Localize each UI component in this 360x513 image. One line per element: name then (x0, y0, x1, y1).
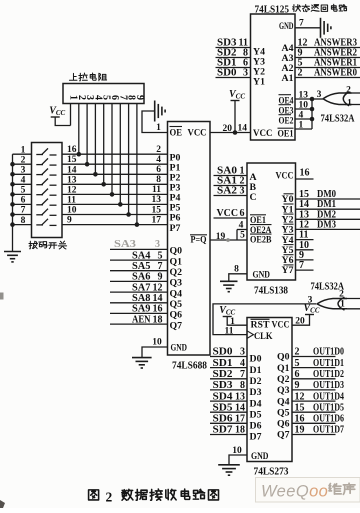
svg-text:Q2: Q2 (170, 267, 183, 278)
OR gate G1 74LS32A (facing left, output pin 3) (312, 86, 360, 109)
svg-text:13: 13 (67, 175, 77, 185)
svg-text:SA3: SA3 (114, 239, 136, 250)
wire resistor pin 5 to switch output row 13 (101, 104, 106, 187)
svg-text:GND: GND (279, 22, 294, 32)
svg-text:OE: OE (170, 128, 183, 139)
svg-text:3: 3 (240, 347, 245, 358)
svg-text:3: 3 (240, 186, 245, 197)
svg-text:GND: GND (171, 343, 188, 354)
svg-text:C: C (250, 192, 257, 203)
svg-text:OUT1D1: OUT1D1 (313, 358, 344, 369)
svg-text:SD6: SD6 (213, 414, 233, 425)
svg-text:AEN: AEN (132, 314, 151, 325)
wire gate G2 output to 74LS273 CLK pin 11 (213, 304, 317, 336)
svg-text:12: 12 (153, 282, 163, 293)
74LS138 Y7 stub (pin 7) (296, 260, 314, 271)
net SD6 into 74LS273 D6 (pin 17) (210, 414, 247, 425)
net SA2 into 74LS138 C (pin 3) (214, 186, 248, 197)
net SD0 into 74LS125 Y1 (pin 3) (216, 68, 251, 79)
svg-text:Q1: Q1 (277, 363, 290, 374)
svg-text:3: 3 (243, 68, 248, 79)
svg-text:SD5: SD5 (213, 402, 233, 413)
label 74LS32A (lower) (311, 282, 345, 293)
svg-text:OUT1D7: OUT1D7 (313, 425, 344, 436)
svg-text:OUT1D5: OUT1D5 (313, 402, 344, 413)
net SA8 to 74LS688 Q5 (pin 14) (110, 293, 168, 304)
watermark WeeQoo维库 (256, 478, 360, 503)
svg-text:6: 6 (240, 208, 245, 219)
net OUT1D1 from 74LS273 Q1 (pin 5) (292, 358, 344, 369)
svg-text:5: 5 (158, 250, 163, 261)
net SD1 into 74LS125 Y2 (pin 6) (216, 58, 251, 69)
svg-text:14: 14 (238, 124, 248, 134)
net OUT1D7 from 74LS273 Q7 (pin 19) (292, 425, 344, 436)
svg-text:3: 3 (21, 166, 26, 176)
svg-text:D2: D2 (250, 376, 262, 387)
svg-text:Y7: Y7 (282, 265, 294, 276)
svg-text:11: 11 (225, 326, 234, 336)
net SD2 into 74LS273 D2 (pin 7) (210, 369, 247, 380)
svg-text:17: 17 (235, 414, 245, 425)
svg-text:OE2: OE2 (279, 117, 294, 127)
net SD4 into 74LS273 D4 (pin 13) (210, 391, 247, 402)
svg-text:OUT1D6: OUT1D6 (313, 414, 344, 425)
label 74LS32A (upper) (321, 114, 356, 125)
svg-text:VCC: VCC (253, 128, 273, 139)
P=Q pin19 wire to 74LS138 OE2A/OE2B (210, 221, 247, 243)
svg-text:Q0: Q0 (170, 246, 183, 257)
net SA7 to 74LS688 Q4 (pin 12) (110, 282, 168, 293)
svg-text:SD2: SD2 (213, 369, 233, 380)
svg-text:11: 11 (152, 185, 161, 195)
svg-text:12: 12 (67, 185, 77, 195)
svg-text:14: 14 (67, 165, 77, 175)
svg-text:Q1: Q1 (170, 256, 183, 267)
svg-text:VCC: VCC (217, 208, 239, 219)
svg-text:DM3: DM3 (317, 219, 336, 230)
svg-text:8: 8 (21, 216, 26, 226)
svg-text:SA5: SA5 (132, 261, 151, 272)
svg-text:WeeQoo: WeeQoo (261, 483, 328, 501)
svg-text:10: 10 (299, 101, 309, 111)
svg-text:SD0: SD0 (217, 68, 237, 79)
svg-text:2: 2 (21, 155, 26, 165)
svg-text:4: 4 (156, 155, 161, 165)
svg-text:10: 10 (232, 446, 242, 456)
svg-text:15: 15 (295, 402, 305, 413)
svg-text:Q4: Q4 (170, 288, 183, 299)
svg-text:2: 2 (346, 86, 351, 96)
net SD3 into 74LS125 Y4 (pin 11) (216, 38, 251, 49)
svg-text:Q5: Q5 (277, 407, 290, 418)
svg-text:7: 7 (240, 369, 245, 380)
svg-text:74LS32A: 74LS32A (321, 114, 356, 125)
net row: switch pin 14 to 74LS688 P2 (pin 6) (62, 165, 168, 175)
svg-text:5: 5 (240, 230, 245, 240)
net AEN to 74LS688 Q7 (pin 18) (110, 314, 168, 325)
svg-text:9: 9 (158, 272, 163, 283)
DIP switch S1 (拨码开关, 8 switches) (32, 143, 63, 238)
svg-text:Q7: Q7 (277, 430, 290, 441)
74LS688 GND pin10 to ground (132, 338, 168, 369)
label 74LS138 (254, 286, 288, 297)
svg-text:D4: D4 (250, 398, 262, 409)
svg-text:OUT1D3: OUT1D3 (313, 380, 344, 391)
scan artifact bottom-left corner (0, 293, 5, 509)
svg-text:1: 1 (230, 317, 235, 327)
svg-text:16: 16 (153, 304, 163, 315)
net SD2 into 74LS125 Y3 (pin 8) (216, 48, 251, 59)
svg-text:7: 7 (299, 18, 304, 28)
svg-text:Q6: Q6 (277, 419, 290, 430)
IC U2 74LS125 (quad buffer) (251, 14, 296, 140)
svg-text:SA7: SA7 (132, 282, 151, 293)
caption 图2 数据接收电路图 (Figure 2: data receiving circuit) (89, 489, 219, 504)
svg-text:10: 10 (67, 206, 77, 216)
net DM3 from 74LS138 Y3 (pin 12) (296, 219, 360, 230)
wire resistor pin 7 to switch output row 11 (118, 104, 123, 207)
Vcc supply to 74LS273 VCC pin 20 (292, 303, 320, 327)
svg-text:6: 6 (21, 196, 26, 206)
svg-text:OUT1D2: OUT1D2 (313, 369, 344, 380)
net VCC into 74LS138 OE1 (pin 6) (214, 208, 248, 219)
svg-text:8: 8 (240, 380, 245, 391)
svg-text:5: 5 (295, 358, 300, 369)
svg-text:5: 5 (21, 186, 26, 196)
74LS138 Y6 stub (pin 9) (296, 250, 314, 261)
net ANSWER2 from 74LS125 A3 (pin 9) (295, 48, 360, 59)
OR gate G2 74LS32A (facing left, output to CLK) (308, 290, 360, 311)
IC U3 74LS138 (3-to-8 decoder) (247, 163, 296, 281)
label 拨码开关 (DIP switch) (29, 241, 67, 249)
net row: switch pin 16 to 74LS688 P0 (pin 2) (62, 145, 168, 155)
net SD7 into 74LS273 D7 (pin 18) (210, 425, 247, 436)
net DM0 from 74LS138 Y0 (pin 15) (296, 189, 360, 200)
74LS125 OE1-OE4 pins bus to gate G1 (295, 91, 314, 131)
net SD0 into 74LS273 D0 (pin 3) (210, 347, 247, 358)
wire resistor pin 6 to switch output row 12 (110, 104, 115, 197)
svg-text:RST: RST (251, 321, 271, 331)
svg-text:SD0: SD0 (213, 347, 233, 358)
Vcc supply at 74LS688/74LS125 VCC (229, 89, 245, 133)
svg-text:13: 13 (299, 91, 309, 101)
svg-text:SA9: SA9 (132, 304, 151, 315)
label 上拉电阻 (pull-up resistor) (69, 73, 106, 81)
svg-text:3: 3 (155, 239, 160, 250)
svg-text:Q3: Q3 (170, 278, 183, 289)
svg-text:8: 8 (234, 265, 239, 275)
svg-text:SD4: SD4 (213, 391, 234, 402)
Vcc supply to 74LS273 RST pin 1 (219, 305, 247, 327)
svg-text:4: 4 (21, 176, 26, 186)
net ANSWER3 from 74LS125 A4 (pin 12) (295, 38, 360, 49)
svg-text:12: 12 (295, 391, 305, 402)
svg-text:1: 1 (156, 123, 161, 133)
net OUT1D3 from 74LS273 Q3 (pin 9) (292, 380, 344, 391)
svg-text:OE2B: OE2B (250, 235, 272, 245)
switch input pins 1-8 with common bus (10, 145, 31, 251)
svg-text:1: 1 (347, 99, 352, 109)
svg-text:2: 2 (298, 68, 303, 79)
svg-text:6: 6 (156, 165, 161, 175)
svg-text:7: 7 (21, 206, 26, 216)
svg-text:4: 4 (239, 221, 244, 231)
svg-text:Q2: Q2 (277, 374, 290, 385)
IC U1 74LS688 (8-bit comparator) (168, 122, 211, 356)
net ANSWER1 from 74LS125 A2 (pin 5) (295, 58, 360, 69)
svg-text:18: 18 (153, 314, 163, 325)
svg-text:3: 3 (317, 90, 322, 100)
svg-text:VCC: VCC (276, 171, 294, 182)
svg-text:15: 15 (67, 155, 77, 165)
svg-text:SD1: SD1 (213, 358, 233, 369)
net OUT1D0 from 74LS273 Q0 (pin 2) (292, 347, 344, 358)
svg-text:1: 1 (340, 300, 345, 310)
74LS138 VCC pin16 stub (296, 168, 314, 180)
svg-text:9: 9 (134, 95, 145, 100)
svg-text:VCC: VCC (272, 320, 290, 331)
svg-text:7: 7 (158, 261, 163, 272)
net SD3 into 74LS273 D3 (pin 8) (210, 380, 247, 391)
74LS138 Y5 stub (pin 10) (296, 240, 314, 251)
resistor network RN1 (pull-up resistor pack, pins 1-9) (63, 84, 145, 104)
label 状态返回电路 (status return circuit) (293, 4, 347, 11)
svg-text:OUT1D0: OUT1D0 (313, 347, 344, 358)
wire resistor pin 8 to switch output row 10 (126, 104, 131, 217)
svg-text:13: 13 (152, 195, 162, 205)
svg-text:4: 4 (240, 358, 245, 369)
svg-text:9: 9 (67, 216, 72, 226)
net SD1 into 74LS273 D1 (pin 4) (210, 358, 247, 369)
svg-text:7: 7 (299, 260, 304, 271)
svg-text:SD7: SD7 (213, 425, 233, 436)
svg-text:74LS138: 74LS138 (254, 286, 288, 297)
svg-text:19: 19 (216, 232, 226, 242)
svg-text:15: 15 (152, 205, 162, 215)
net OUT1D2 from 74LS273 Q2 (pin 6) (292, 369, 344, 380)
net row: switch pin 11 to 74LS688 P5 (pin 13) (62, 195, 168, 205)
svg-text:8: 8 (156, 175, 161, 185)
svg-text:Q3: Q3 (277, 385, 290, 396)
svg-text:14: 14 (235, 402, 245, 413)
net row: switch pin 9 to 74LS688 P7 (pin 17) (62, 215, 168, 225)
svg-text:2: 2 (295, 347, 300, 358)
net row: switch pin 10 to 74LS688 P6 (pin 15) (62, 205, 168, 215)
IC U4 74LS273 (octal D flip-flop) (247, 318, 292, 463)
net OUT1D5 from 74LS273 Q5 (pin 15) (292, 402, 344, 413)
svg-text:OUT1D4: OUT1D4 (313, 391, 345, 402)
svg-text:19: 19 (295, 425, 305, 436)
svg-text:SD3: SD3 (213, 380, 233, 391)
svg-text:13: 13 (235, 391, 245, 402)
label 74LS273 (254, 467, 289, 478)
label 74LS125 (255, 5, 290, 16)
svg-text:10: 10 (152, 338, 162, 348)
svg-text:SA6: SA6 (132, 272, 151, 283)
svg-text:Q6: Q6 (170, 310, 183, 321)
svg-text:4: 4 (299, 111, 304, 121)
svg-text:ANSWER0: ANSWER0 (314, 68, 357, 79)
svg-text:D3: D3 (250, 387, 262, 398)
svg-text:20: 20 (223, 124, 233, 134)
wire resistor pin 9 to switch output row 9 (135, 104, 140, 227)
wire resistor pin 1 stub (70, 104, 72, 126)
74LS688 pin1 OE wire to ground (rotated) (142, 101, 168, 134)
ground for switch common bus (4, 252, 21, 262)
net ANSWER0 from 74LS125 A1 (pin 2) (295, 68, 360, 79)
svg-text:74LS32A: 74LS32A (311, 282, 345, 293)
74LS273 GND pin10 to ground (218, 446, 247, 475)
net SA6 to 74LS688 Q3 (pin 9) (110, 272, 168, 283)
svg-text:17: 17 (152, 215, 162, 225)
svg-text:9: 9 (295, 380, 300, 391)
svg-text:OE1: OE1 (278, 130, 294, 140)
svg-text:D7: D7 (250, 432, 262, 443)
svg-text:D5: D5 (250, 409, 262, 420)
svg-text:VCC: VCC (188, 127, 207, 138)
svg-text:74LS688: 74LS688 (172, 361, 207, 372)
svg-text:D6: D6 (250, 421, 262, 432)
74LS138 Y4 stub (pin 11) (296, 230, 314, 241)
net DM2 from 74LS138 Y2 (pin 13) (296, 209, 360, 220)
net row: switch pin 15 to 74LS688 P1 (pin 4) (62, 155, 168, 165)
net DM1 from 74LS138 Y1 (pin 14) (296, 199, 360, 210)
wire resistor pin 3 to switch output row 15 (85, 104, 90, 167)
svg-text:74LS125: 74LS125 (255, 5, 290, 16)
svg-text:6: 6 (295, 369, 300, 380)
label 74LS688 (172, 361, 207, 372)
svg-text:Y1: Y1 (253, 77, 265, 88)
wire resistor pin 2 to switch output row 16 (77, 104, 82, 157)
net SA9 to 74LS688 Q6 (pin 16) (110, 304, 168, 315)
74LS688 VCC pin20 wire to 74LS125 pin14 (210, 124, 251, 135)
svg-text:16: 16 (295, 414, 305, 425)
svg-text:16: 16 (67, 145, 77, 155)
svg-text:20: 20 (295, 317, 305, 327)
net row: switch pin 12 to 74LS688 P4 (pin 11) (62, 185, 168, 195)
svg-text:1: 1 (21, 145, 26, 155)
svg-text:Q5: Q5 (170, 299, 183, 310)
Vcc supply for resistor common pin 1 (49, 106, 70, 126)
svg-text:P=Q: P=Q (191, 236, 207, 246)
svg-text:18: 18 (235, 425, 245, 436)
svg-text:D0: D0 (250, 354, 262, 365)
svg-text:2: 2 (106, 490, 113, 505)
svg-text:14: 14 (153, 293, 163, 304)
net row: switch pin 13 to 74LS688 P3 (pin 8) (62, 175, 168, 185)
svg-text:GND: GND (253, 270, 271, 281)
svg-text:74LS273: 74LS273 (254, 467, 289, 478)
net SA5 to 74LS688 Q2 (pin 7) (110, 261, 168, 272)
svg-text:Q4: Q4 (277, 396, 290, 407)
svg-text:1: 1 (299, 121, 304, 131)
svg-text:SA2: SA2 (217, 186, 237, 197)
svg-text:2: 2 (156, 145, 161, 155)
svg-text:P7: P7 (170, 223, 181, 234)
net SA0 into 74LS138 A (pin 1) (214, 166, 248, 177)
net OUT1D6 from 74LS273 Q6 (pin 16) (292, 414, 344, 425)
svg-text:A1: A1 (282, 73, 294, 84)
svg-text:CLK: CLK (254, 331, 273, 342)
net SD5 into 74LS273 D5 (pin 14) (210, 402, 247, 413)
svg-text:SA4: SA4 (132, 250, 151, 261)
svg-text:11: 11 (67, 195, 76, 205)
74LS138 GND pin8 to ground (220, 265, 247, 292)
net SA3 to 74LS688 Q0 (pin 3) (110, 239, 168, 250)
74LS125 GND pin7 to ground (rotated) (295, 18, 331, 38)
svg-text:D1: D1 (250, 365, 262, 376)
net SA1 into 74LS138 B (pin 2) (214, 176, 248, 187)
svg-text:GND: GND (251, 451, 269, 462)
wire resistor pin 4 to switch output row 14 (93, 104, 98, 177)
net OUT1D4 from 74LS273 Q4 (pin 12) (292, 391, 345, 402)
svg-text:Q7: Q7 (170, 320, 183, 331)
svg-text:SA8: SA8 (132, 293, 151, 304)
net SA4 to 74LS688 Q1 (pin 5) (110, 250, 168, 261)
svg-text:Q0: Q0 (277, 352, 290, 363)
svg-text:16: 16 (300, 168, 310, 179)
